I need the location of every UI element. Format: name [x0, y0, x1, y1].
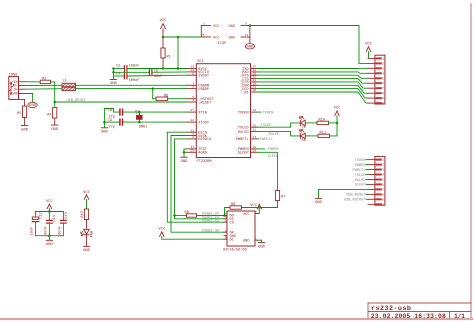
svg-text:27: 27	[190, 109, 194, 112]
svg-text:6MHz: 6MHz	[139, 125, 148, 129]
node junction caps left mid	[112, 71, 115, 74]
svg-text:EEDATA: EEDATA	[198, 138, 212, 142]
crystal Q1	[135, 110, 147, 129]
svg-text:R8: R8	[185, 211, 189, 215]
wire caps bottom rail	[36, 235, 64, 237]
wire +5V to R2	[24, 81, 40, 83]
svg-text:10: 10	[380, 102, 384, 105]
wire _TXLED jog	[257, 123, 300, 127]
svg-text:CON6: CON6	[9, 73, 18, 77]
wire AVCC row (through C2)	[114, 68, 187, 70]
svg-text:USBEE_CS: USBEE_CS	[202, 220, 219, 224]
wire xtal caps common to ground	[103, 109, 105, 128]
wire R4 to ground	[54, 119, 56, 125]
svg-text:USB_RSTOUT: USB_RSTOUT	[344, 199, 366, 203]
svg-text:8: 8	[382, 92, 384, 95]
resistor R11	[318, 131, 330, 137]
ground symbol xtal	[101, 128, 109, 135]
wire stubs at SV2 labelled pins	[366, 160, 368, 200]
ground symbol below R4	[51, 125, 59, 132]
node junction caps top	[48, 210, 51, 213]
node junction crystal bottom	[138, 121, 141, 124]
wire R10 to VCC rail	[329, 122, 338, 124]
svg-text:_RXLED: _RXLED	[266, 133, 280, 137]
svg-text:_TXLED: _TXLED	[352, 174, 366, 178]
svg-text:IC3: IC3	[197, 60, 203, 64]
node junction IC3P GND	[249, 24, 252, 27]
svg-text:GND: GND	[315, 201, 323, 205]
IC3 right pin names	[235, 68, 250, 156]
svg-text:13: 13	[253, 136, 257, 139]
earth symbol oval GND at IC3P	[245, 44, 254, 50]
connector CON6 USB	[9, 73, 24, 99]
svg-text:SLEEP: SLEEP	[355, 184, 366, 188]
svg-text:6: 6	[192, 72, 194, 75]
svg-text:14: 14	[253, 109, 257, 112]
LED D3 power	[81, 229, 95, 237]
svg-text:4: 4	[382, 174, 384, 177]
ground symbol power LED	[83, 246, 91, 253]
wire _RTS to SV1	[257, 75, 368, 78]
svg-text:GND: GND	[29, 104, 37, 108]
svg-text:GND: GND	[243, 239, 249, 243]
svg-text:_RXLED: _RXLED	[352, 179, 366, 183]
wire caps top rail	[36, 211, 64, 213]
svg-text:GND: GND	[258, 245, 266, 249]
capacitor C9	[108, 119, 123, 129]
wire R7 bottom to VCC rail	[259, 201, 277, 208]
wire USBDP tap down to R6	[152, 89, 154, 99]
svg-text:5: 5	[382, 179, 384, 182]
svg-text:1: 1	[382, 57, 384, 60]
svg-text:8: 8	[382, 193, 384, 196]
svg-text:6: 6	[225, 236, 227, 239]
svg-text:GND: GND	[246, 46, 254, 50]
node junction USB_RESET at R4	[53, 101, 56, 104]
VCC supply symbol caps farm	[46, 200, 54, 212]
svg-text:_RXLED: _RXLED	[235, 131, 249, 135]
wire EECS to EEPROM CS	[167, 132, 224, 222]
svg-text:GND: GND	[181, 160, 189, 164]
node junction EEDATA DO branch	[173, 214, 176, 217]
svg-text:VCC: VCC	[213, 36, 219, 40]
svg-text:28: 28	[190, 119, 194, 122]
ground symbol TEST/AGND	[181, 157, 189, 164]
ground symbol SV2	[315, 198, 323, 205]
ground symbol below R5	[21, 126, 29, 133]
capacitor C4	[116, 73, 139, 83]
svg-text:5: 5	[255, 237, 257, 240]
wire D- to choke	[24, 84, 62, 86]
svg-text:2: 2	[192, 136, 194, 139]
svg-text:GND: GND	[11, 93, 17, 97]
node junction VCC rail branch	[177, 36, 180, 39]
svg-text:TXDEN: TXDEN	[263, 111, 274, 115]
IC3 left pin stubs	[187, 69, 197, 153]
wire LED TX to R10	[305, 122, 317, 124]
svg-text:R7: R7	[281, 196, 285, 200]
IC3 left pin names	[197, 68, 214, 156]
VCC supply symbol power LED	[83, 191, 91, 209]
svg-text:3: 3	[382, 67, 384, 70]
svg-text:5: 5	[382, 77, 384, 80]
wire R6 left lead	[153, 98, 156, 100]
svg-text:PWRCTL: PWRCTL	[353, 169, 366, 173]
wire AGND join	[184, 151, 187, 153]
capacitor C2	[116, 64, 139, 71]
wire _RI to SV1	[257, 92, 368, 103]
svg-text:VCC: VCC	[46, 200, 54, 204]
wire RXD to SV1	[257, 72, 368, 73]
svg-text:2: 2	[382, 164, 384, 167]
frame bottom border	[0, 318, 472, 320]
node junction caps left top	[112, 67, 115, 70]
svg-text:PWR: PWR	[91, 230, 95, 237]
svg-text:USBDP: USBDP	[198, 88, 209, 92]
svg-text:C8: C8	[108, 109, 112, 113]
svg-text:_RI: _RI	[241, 91, 248, 95]
svg-text:_TXLED: _TXLED	[235, 127, 249, 131]
connector SV2	[368, 156, 385, 206]
svg-text:USBEE_SK: USBEE_SK	[202, 230, 220, 234]
svg-text:VCC: VCC	[365, 43, 373, 47]
svg-text:23.02.2005 16:33:08: 23.02.2005 16:33:08	[371, 313, 446, 320]
wire GND pin of CON6 to earth	[24, 94, 33, 103]
svg-text:3: 3	[203, 22, 205, 25]
svg-text:FT232BM: FT232BM	[197, 160, 212, 164]
svg-text:10: 10	[253, 149, 257, 152]
VCC supply symbol (top)	[160, 19, 168, 37]
wire TEST to AGND join	[184, 149, 187, 157]
resistor R8	[185, 211, 197, 217]
wire R9 left to DO tap	[225, 208, 231, 216]
wire EESK to EEPROM SK	[171, 136, 224, 233]
svg-text:USB_RESET: USB_RESET	[67, 99, 87, 103]
wire R8 to EEPROM DO	[197, 215, 224, 217]
svg-text:1/1: 1/1	[454, 313, 465, 320]
node junction caps bottom	[48, 234, 51, 237]
wire D+ to choke	[24, 88, 62, 91]
wire R5 to ground	[24, 118, 26, 126]
svg-text:_TXLED: _TXLED	[258, 124, 272, 128]
svg-text:C9: C9	[108, 119, 112, 123]
svg-text:7: 7	[382, 87, 384, 90]
wire R2 to USB_RESET node	[51, 82, 55, 102]
node junction R1 bottom on AVCC wire	[162, 67, 165, 70]
wire VCC down to EEPROM VCC pin	[255, 208, 259, 214]
wire node to R4	[54, 102, 56, 107]
svg-text:C6: C6	[154, 70, 158, 74]
svg-text:VCC: VCC	[213, 25, 219, 29]
svg-text:R4: R4	[47, 114, 51, 118]
node junction USBDP pull-up tap	[151, 87, 154, 90]
svg-text:XTOUT: XTOUT	[198, 121, 210, 125]
svg-text:GND: GND	[51, 128, 59, 132]
svg-text:100nF: 100nF	[129, 65, 140, 69]
svg-text:9: 9	[382, 198, 384, 201]
resistor R5	[17, 106, 27, 118]
svg-text:VCC: VCC	[83, 191, 91, 195]
wire VCC rail to R9	[242, 207, 260, 209]
svg-text:GND: GND	[229, 25, 235, 29]
svg-text:27p: 27p	[109, 126, 115, 130]
ground symbol caps left	[110, 80, 118, 87]
svg-text:C4: C4	[116, 73, 120, 77]
svg-text:GND: GND	[101, 131, 109, 135]
svg-text:4: 4	[192, 99, 194, 102]
svg-text:C14: C14	[53, 215, 57, 221]
frame right border	[470, 4, 472, 319]
svg-text:2: 2	[225, 229, 227, 232]
svg-text:XTIN: XTIN	[198, 111, 207, 115]
node junction branch on AVCC wire	[177, 67, 180, 70]
svg-text:VCC: VCC	[334, 107, 342, 111]
wire XTIN row (through C8)	[104, 109, 186, 113]
wire VCC rail to IC3P pin 26	[163, 36, 201, 38]
svg-text:1: 1	[225, 219, 227, 222]
IC3 left pin numbers	[190, 66, 194, 153]
wire EEDATA down	[175, 139, 224, 219]
wire EEPROM GND to ground	[258, 239, 261, 241]
svg-text:VCC: VCC	[158, 228, 166, 232]
resistor R6	[156, 94, 168, 100]
svg-text:8: 8	[192, 86, 194, 89]
resistor R13	[81, 209, 88, 220]
svg-text:2: 2	[382, 62, 384, 65]
svg-text:4: 4	[382, 72, 384, 75]
IC3 right pin numbers	[253, 66, 257, 153]
wire R6 to _RSTOUT	[168, 98, 187, 100]
svg-text:C12: C12	[39, 212, 43, 218]
svg-text:26: 26	[201, 34, 205, 37]
LED D1 TX	[299, 116, 306, 130]
svg-text:L1: L1	[63, 80, 67, 84]
ground symbol caps farm	[46, 240, 54, 247]
svg-text:SLEEP: SLEEP	[268, 155, 279, 159]
svg-text:_SLEEP: _SLEEP	[235, 152, 249, 156]
node junction DO tap	[223, 214, 226, 217]
svg-text:6: 6	[382, 82, 384, 85]
svg-text:93C46/56/66: 93C46/56/66	[223, 248, 247, 253]
svg-text:PWRCTL: PWRCTL	[236, 138, 249, 142]
svg-text:_PWREN: _PWREN	[265, 148, 279, 152]
wire caps rail to ground	[48, 236, 50, 241]
IC2 EEPROM 93C46 box	[223, 211, 258, 253]
svg-text:1: 1	[382, 159, 384, 162]
power part IC3P	[201, 22, 250, 46]
svg-text:GND: GND	[21, 128, 29, 132]
svg-text:9: 9	[382, 97, 384, 100]
wire TXDEN stub	[257, 111, 261, 113]
wire USBDP line choke to IC	[76, 88, 187, 90]
svg-text:R13: R13	[81, 211, 85, 217]
svg-text:R10: R10	[319, 118, 325, 122]
wire PWRCTL stub	[257, 138, 259, 140]
svg-text:R2: R2	[42, 77, 46, 81]
title block	[368, 303, 471, 318]
wire _DCD to SV1	[257, 89, 368, 99]
VCC supply symbol mid	[250, 204, 261, 209]
ground symbol EEPROM	[258, 240, 266, 249]
shield stub CON6 to R5	[19, 99, 25, 106]
wire LED RX to R11	[305, 135, 318, 137]
svg-text:GND: GND	[83, 249, 91, 253]
wire GND to SV2 pin7	[319, 189, 369, 198]
svg-text:R11: R11	[320, 131, 326, 135]
svg-text:C13: C13	[65, 212, 69, 218]
wire _PWREN stub	[257, 148, 265, 150]
resistor R10	[317, 118, 329, 124]
svg-text:_PWREN: _PWREN	[352, 164, 366, 168]
earth symbol oval GND	[28, 102, 37, 108]
svg-text:TXDEN: TXDEN	[238, 111, 249, 115]
wire TXD to SV1	[257, 67, 368, 69]
svg-text:10: 10	[380, 203, 384, 206]
node junction LED VCC	[336, 122, 339, 125]
wire _DSR to SV1	[257, 85, 368, 93]
wire IC3P pin 9 GND to SV1	[250, 26, 368, 64]
svg-text:IC3P: IC3P	[218, 42, 227, 46]
resistor R1	[161, 37, 171, 69]
CON6 pin stubs	[19, 82, 25, 94]
svg-text:_RESET: _RESET	[197, 101, 212, 105]
wire USBDM line choke to IC	[76, 84, 187, 86]
node junction xtal gnd	[103, 121, 106, 124]
svg-text:C2: C2	[116, 64, 120, 68]
node junction VCC rail	[162, 36, 165, 39]
node junction VCC rail mid	[258, 206, 261, 209]
node junction crystal top	[138, 111, 141, 114]
wire 3VOUT row (through C4)	[114, 74, 187, 77]
wire R13 to LED	[86, 220, 88, 230]
svg-text:VCC: VCC	[243, 213, 249, 217]
wire LED to ground	[86, 235, 88, 247]
wire VCCIO row (through C6)	[114, 71, 187, 73]
svg-text:R9: R9	[231, 203, 235, 207]
wire _CTS to SV1	[257, 79, 368, 84]
svg-text:rs232-usb: rs232-usb	[371, 305, 411, 313]
svg-text:GND: GND	[46, 243, 54, 247]
wire USB_RESET row	[55, 101, 187, 103]
svg-text:DC: DC	[230, 239, 234, 243]
svg-text:R5: R5	[17, 112, 21, 116]
wire _SLEEP down to R7	[257, 152, 278, 190]
connector SV1	[368, 55, 385, 105]
wire EEDATA branch to R8	[175, 215, 187, 217]
svg-text:TXDEN: TXDEN	[355, 159, 366, 163]
VCC supply symbol EEPROM ORG	[158, 228, 166, 240]
svg-text:3: 3	[382, 169, 384, 172]
resistor R7	[275, 191, 285, 201]
svg-text:R1: R1	[167, 56, 171, 60]
capacitor C14 100nF	[44, 212, 57, 237]
svg-text:10uF: 10uF	[31, 227, 35, 236]
LED D2 RX	[299, 129, 306, 143]
svg-text:PWRCTL: PWRCTL	[260, 138, 273, 142]
capacitor C12 10uF polarized	[31, 212, 44, 236]
wire cap-farm left vertical to ground	[113, 69, 115, 80]
svg-text:7: 7	[382, 188, 384, 191]
svg-text:AGND: AGND	[198, 152, 207, 156]
svg-text:6: 6	[382, 183, 384, 186]
capacitor C8	[108, 109, 123, 119]
svg-text:3VOUT: 3VOUT	[198, 75, 210, 79]
svg-text:18: 18	[253, 89, 257, 92]
svg-text:12: 12	[253, 124, 257, 127]
resistor R9	[230, 203, 242, 209]
wire R11 to VCC vertical	[330, 123, 338, 136]
svg-text:VCC: VCC	[160, 19, 168, 23]
svg-text:29: 29	[190, 149, 194, 152]
EEPROM pin stubs	[224, 213, 258, 240]
wire VCC to EEPROM ORG pin	[162, 238, 224, 240]
svg-text:9: 9	[245, 22, 247, 25]
wire VCC branch down to AVCC row	[177, 37, 179, 69]
wire XTOUT row (through C9)	[104, 121, 186, 123]
resistor R4	[47, 108, 57, 119]
svg-text:13: 13	[245, 34, 249, 37]
IC3 right pin stubs	[251, 69, 258, 153]
inductor L1 common-mode choke	[62, 80, 76, 91]
svg-text:CS: CS	[230, 221, 234, 225]
capacitor C6	[149, 70, 162, 80]
capacitor C13 100nF	[58, 212, 69, 237]
VCC supply symbol at SV1	[365, 43, 373, 59]
wire _DTR to SV1	[257, 82, 368, 88]
svg-text:GND: GND	[229, 36, 235, 40]
resistor R2	[40, 77, 50, 83]
wire _RXLED jog	[257, 132, 300, 136]
svg-text:USB_RESET: USB_RESET	[346, 194, 366, 198]
node junction TEST/AGND	[183, 151, 186, 154]
svg-text:100nF: 100nF	[129, 79, 140, 83]
IC3 FT232BM main box	[196, 60, 250, 164]
USB glyph inside CON6	[9, 82, 14, 94]
wire IC3P pin 13 GND down	[249, 37, 251, 44]
svg-text:8: 8	[255, 211, 257, 214]
VCC supply symbol LEDs	[334, 107, 342, 123]
svg-text:11: 11	[253, 129, 257, 132]
svg-text:R6: R6	[164, 94, 168, 98]
